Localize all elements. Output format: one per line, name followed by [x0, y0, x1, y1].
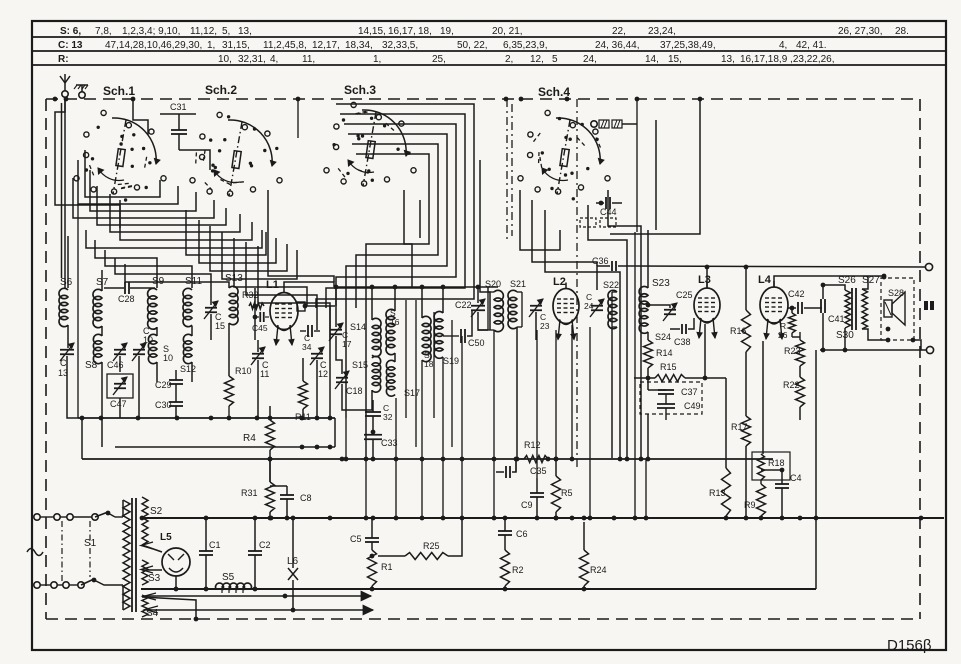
- wire: [520, 190, 560, 250]
- svg-text:C30: C30: [155, 400, 172, 410]
- mechanical link wire: [576, 99, 578, 468]
- wire: [210, 314, 212, 340]
- wire: [122, 500, 124, 517]
- junction: [364, 457, 369, 462]
- svg-text:L4: L4: [758, 274, 772, 286]
- svg-text:C: C: [60, 358, 67, 368]
- svg-text:S11: S11: [185, 276, 202, 287]
- junction: [744, 516, 749, 521]
- svg-text:15,: 15,: [668, 54, 682, 65]
- svg-text:16,17,: 16,17,: [388, 26, 416, 37]
- svg-text:11,: 11,: [302, 54, 315, 65]
- wire: [228, 323, 230, 376]
- terminal post: [925, 263, 932, 270]
- svg-text:C: 13: C: 13: [58, 40, 83, 51]
- wire: [883, 276, 885, 277]
- wire: [268, 512, 273, 520]
- wire: [73, 178, 214, 218]
- transformer S30 label: [836, 330, 854, 341]
- svg-text:S27: S27: [862, 275, 880, 286]
- coil S10: [148, 334, 173, 363]
- wire: [257, 360, 259, 418]
- coil S23: [639, 278, 670, 333]
- wire: [535, 312, 537, 340]
- jack socket: [591, 120, 637, 128]
- svg-text:R14: R14: [656, 348, 673, 358]
- svg-text:L3: L3: [698, 274, 711, 286]
- wire: [110, 194, 240, 232]
- wire: [326, 114, 465, 308]
- svg-text:R32: R32: [242, 290, 259, 300]
- svg-text:32,31,: 32,31,: [238, 54, 266, 65]
- wire: [451, 320, 453, 447]
- svg-text:S22: S22: [603, 280, 619, 290]
- svg-text:12,17,: 12,17,: [312, 40, 340, 51]
- wire: [101, 326, 103, 336]
- chassis dashed top wire: [46, 98, 920, 100]
- wire: [234, 238, 307, 306]
- junction: [633, 516, 638, 521]
- wire: [395, 398, 397, 518]
- junction: [588, 516, 593, 521]
- junction on chassis wire: [504, 97, 509, 102]
- wire: [536, 330, 538, 478]
- wire: [478, 312, 488, 330]
- svg-text:S: 6,: S: 6,: [60, 26, 81, 37]
- capacitor C28: [104, 282, 155, 304]
- mains switch blade: [81, 578, 96, 585]
- switch Sch.1 label: [103, 84, 135, 98]
- svg-text:C9: C9: [521, 500, 533, 510]
- AVC filter box: [640, 382, 702, 414]
- wire: [268, 457, 273, 482]
- junction: [554, 457, 559, 462]
- wire: [186, 210, 266, 255]
- transformer S26: [838, 275, 856, 328]
- transformer S3: [142, 560, 161, 585]
- capacitor C32: [365, 400, 393, 432]
- table row R text: [58, 54, 835, 65]
- coil S21: [508, 279, 526, 329]
- table line 1: [32, 36, 946, 38]
- svg-text:S9: S9: [152, 276, 165, 287]
- junction: [724, 516, 729, 521]
- winding terminal: [141, 542, 158, 613]
- junction: [919, 516, 924, 521]
- wire: [515, 327, 520, 461]
- wire: [108, 513, 123, 517]
- junction on chassis wire: [64, 97, 69, 102]
- svg-text:10: 10: [163, 353, 173, 363]
- junction: [99, 416, 104, 421]
- capacitor C37: [658, 387, 698, 397]
- capacitor C41: [821, 299, 845, 324]
- svg-text:R10: R10: [235, 366, 252, 376]
- arrow wire: [148, 605, 373, 614]
- plug symbol: [924, 301, 934, 310]
- wire: [85, 150, 160, 197]
- triode L3: [694, 274, 720, 323]
- resistor R10: [225, 366, 252, 406]
- capacitor C38: [670, 316, 694, 347]
- wire: [821, 313, 826, 352]
- wire: [840, 285, 845, 290]
- capacitor C42: [788, 289, 822, 314]
- junction: [582, 516, 587, 521]
- svg-text:15: 15: [215, 321, 225, 331]
- wire: [405, 300, 407, 418]
- resistor R4: [243, 420, 275, 450]
- resistor R31: [241, 482, 275, 512]
- bus wire B+: [82, 458, 773, 460]
- svg-text:23,24,: 23,24,: [648, 26, 676, 37]
- wire: [421, 360, 423, 518]
- chassis dashed right wire: [919, 99, 921, 619]
- wire: [222, 232, 297, 279]
- svg-text:16,17,18,9 ,23,22,26,: 16,17,18,9 ,23,22,26,: [740, 54, 835, 65]
- fuse L6: [287, 556, 299, 610]
- coil S8: [85, 334, 102, 371]
- wire: [95, 240, 157, 288]
- wire: [744, 265, 749, 310]
- coil S11: [183, 276, 203, 327]
- svg-text:32,33,5,: 32,33,5,: [382, 40, 418, 51]
- speaker box: [881, 278, 914, 340]
- bus wire HT: [141, 517, 944, 519]
- wire: [342, 384, 372, 410]
- svg-text:34: 34: [302, 342, 312, 352]
- svg-text:24: 24: [584, 301, 594, 311]
- wire: [336, 336, 342, 374]
- svg-text:C46: C46: [107, 360, 124, 370]
- svg-text:47,14,28,10,46,29,30,: 47,14,28,10,46,29,30,: [105, 40, 202, 51]
- svg-text:37,25,38,49,: 37,25,38,49,: [660, 40, 716, 51]
- wire: [101, 418, 103, 447]
- variable capacitor C46: [107, 343, 127, 370]
- junction: [300, 416, 305, 421]
- junction: [344, 457, 349, 462]
- wire: [493, 330, 495, 518]
- resistor R26: [778, 313, 796, 340]
- wire: [67, 325, 69, 348]
- junction: [612, 516, 617, 521]
- junction: [371, 516, 376, 521]
- wire: [634, 232, 636, 518]
- wire: [608, 190, 641, 459]
- wire: [760, 480, 762, 518]
- mains terminal: [34, 582, 84, 588]
- svg-text:S5: S5: [222, 572, 235, 583]
- svg-text:1,2,3,4; 9,10,: 1,2,3,4; 9,10,: [122, 26, 180, 37]
- wire hairpin: [478, 329, 488, 331]
- svg-text:12,: 12,: [530, 54, 544, 65]
- coil S15: [352, 356, 381, 392]
- wire: [646, 303, 670, 308]
- junction: [204, 516, 209, 521]
- coil S14: [350, 318, 381, 356]
- capacitor C5: [350, 518, 379, 550]
- svg-text:R31: R31: [241, 488, 258, 498]
- bus wire: [78, 417, 335, 419]
- resistor R13: [709, 468, 731, 516]
- svg-text:Sch.3: Sch.3: [344, 83, 376, 97]
- wire: [101, 362, 103, 418]
- junction on chassis wire: [635, 97, 640, 102]
- variable capacitor C18: [335, 371, 363, 396]
- wire: [799, 366, 801, 420]
- svg-text:R24: R24: [590, 565, 607, 575]
- svg-text:14,: 14,: [645, 54, 659, 65]
- wire: [862, 329, 888, 340]
- svg-text:S6: S6: [60, 277, 73, 288]
- resistor R1: [368, 550, 393, 586]
- variable capacitor C15: [204, 301, 225, 331]
- junction on chassis wire: [131, 97, 136, 102]
- svg-text:10,: 10,: [218, 54, 232, 65]
- wire: [442, 357, 444, 518]
- wire: [246, 242, 317, 330]
- svg-text:R23: R23: [784, 346, 801, 356]
- capacitor C50: [443, 310, 485, 348]
- junction: [328, 416, 333, 421]
- wire: [329, 306, 331, 418]
- wire: [610, 99, 700, 234]
- junction: [255, 416, 260, 421]
- junction on chassis wire: [698, 97, 703, 102]
- wire: [257, 340, 259, 352]
- wire: [268, 406, 273, 420]
- wire: [571, 325, 573, 459]
- wire: [97, 186, 226, 225]
- cathode arrows L3: [697, 318, 717, 338]
- capacitor C29: [155, 370, 183, 402]
- junction: [759, 516, 764, 521]
- mains terminal: [34, 514, 98, 520]
- capacitor C49: [657, 401, 701, 411]
- mains switch blade: [95, 511, 110, 517]
- wire: [40, 584, 78, 586]
- capacitor C8: [280, 486, 312, 518]
- capacitor C47 box: [107, 374, 133, 398]
- junction on chassis wire: [519, 97, 524, 102]
- svg-text:C37: C37: [681, 387, 698, 397]
- variable capacitor C25: [663, 290, 693, 321]
- svg-text:2,: 2,: [505, 54, 513, 65]
- wire: [646, 414, 651, 461]
- junction: [780, 516, 785, 521]
- wire: [142, 545, 162, 552]
- wire: [270, 485, 287, 487]
- wire: [268, 190, 334, 282]
- junction: [394, 457, 399, 462]
- junction: [420, 516, 425, 521]
- wire: [705, 265, 710, 288]
- variable capacitor C10: [132, 326, 153, 361]
- terminal post: [820, 346, 934, 353]
- wire S2 tap: [140, 516, 145, 521]
- bus wire heater: [141, 588, 816, 590]
- cathode arrows L1: [274, 325, 294, 345]
- wire: [821, 283, 840, 299]
- wire: [345, 418, 347, 459]
- svg-text:S15: S15: [352, 360, 368, 370]
- wire: [582, 522, 587, 591]
- svg-text:S1: S1: [84, 538, 97, 549]
- svg-text:18,: 18,: [418, 26, 432, 37]
- capacitor C31: [170, 102, 187, 150]
- junction: [503, 516, 508, 521]
- svg-text:13,: 13,: [238, 26, 252, 37]
- svg-text:S21: S21: [510, 279, 526, 289]
- wire: [404, 190, 412, 288]
- capacitor C45: [252, 312, 269, 333]
- wire anode: [284, 282, 334, 287]
- wire: [119, 356, 121, 372]
- svg-text:25,: 25,: [432, 54, 446, 65]
- wire: [745, 446, 747, 518]
- wire: [611, 327, 613, 458]
- svg-text:20, 21,: 20, 21,: [492, 26, 523, 37]
- coil S7: [93, 277, 109, 328]
- junction: [441, 457, 446, 462]
- wire: [122, 585, 124, 610]
- junction: [554, 516, 559, 521]
- antenna wire: [62, 97, 66, 288]
- transformer S4: [142, 595, 159, 619]
- wire: [77, 204, 79, 418]
- capacitor C36: [592, 256, 616, 271]
- svg-text:C35: C35: [530, 466, 547, 476]
- coil S19: [434, 311, 459, 366]
- grid bus wire: [334, 286, 498, 288]
- svg-text:24,: 24,: [583, 54, 597, 65]
- wire: [352, 144, 438, 308]
- coil S13: [225, 273, 243, 325]
- junction: [644, 516, 649, 521]
- wire: [258, 246, 330, 340]
- svg-text:C50: C50: [468, 338, 485, 348]
- wire: [545, 210, 620, 458]
- svg-text:C8: C8: [300, 493, 312, 503]
- switch Sch.1 wafer: [74, 110, 166, 201]
- mechanical link wire: [89, 521, 91, 577]
- svg-text:C4: C4: [790, 473, 802, 483]
- svg-text:11,12,: 11,12,: [190, 26, 217, 37]
- junction: [340, 457, 345, 462]
- wire: [648, 378, 666, 420]
- wire: [516, 458, 524, 460]
- svg-text:S23: S23: [652, 278, 670, 289]
- svg-text:S24: S24: [655, 332, 671, 342]
- wire: [101, 270, 103, 291]
- wire: [115, 258, 211, 305]
- resistor R18 box: [752, 452, 790, 480]
- svg-text:S12: S12: [180, 364, 196, 374]
- junction: [394, 516, 399, 521]
- svg-text:28.: 28.: [895, 26, 909, 37]
- junction: [639, 457, 644, 462]
- svg-text:R25: R25: [423, 541, 440, 551]
- junction: [364, 516, 369, 521]
- triode L1: [266, 279, 298, 331]
- switch Sch.2 label: [205, 83, 237, 97]
- svg-text:R15: R15: [660, 362, 677, 372]
- wire: [156, 362, 158, 382]
- wire: [704, 324, 706, 378]
- wire: [725, 516, 727, 518]
- wire: [90, 170, 196, 211]
- bus wire: [334, 418, 336, 447]
- wire: [647, 332, 649, 340]
- svg-text:C25: C25: [676, 290, 693, 300]
- junction: [814, 516, 819, 521]
- wire: [725, 378, 727, 468]
- junction: [315, 445, 320, 450]
- svg-text:R2: R2: [512, 565, 524, 575]
- svg-text:C6: C6: [516, 529, 528, 539]
- wire: [67, 236, 69, 288]
- arrow wire: [143, 591, 371, 600]
- junction: [328, 445, 333, 450]
- wire grid tab: [297, 302, 307, 311]
- wire: [191, 362, 193, 382]
- chassis dashed bottom wire: [46, 618, 920, 620]
- junction: [460, 457, 465, 462]
- svg-text:32: 32: [383, 412, 393, 422]
- wire: [133, 99, 148, 135]
- capacitor C2: [248, 518, 271, 591]
- svg-text:17: 17: [342, 339, 352, 349]
- wire: [191, 326, 193, 336]
- svg-text:19,: 19,: [440, 26, 454, 37]
- wire: [179, 150, 210, 170]
- resistor R18: [758, 454, 785, 480]
- coil S6: [59, 277, 73, 327]
- svg-text:C18: C18: [346, 386, 363, 396]
- capacitor C44: [596, 197, 622, 217]
- wire: [346, 134, 447, 418]
- junction: [570, 516, 575, 521]
- junction: [328, 516, 333, 521]
- junction: [285, 516, 290, 521]
- svg-text:R1: R1: [381, 562, 393, 572]
- svg-text:S14: S14: [350, 322, 366, 332]
- wire: [356, 154, 429, 459]
- wire: [105, 250, 192, 288]
- svg-text:42, 41.: 42, 41.: [796, 40, 827, 51]
- wire: [589, 327, 591, 518]
- jack switch: [580, 218, 616, 227]
- coil S9: [148, 276, 165, 329]
- switch Sch.3 wafer: [324, 102, 416, 186]
- wire: [503, 586, 508, 591]
- table row C text: [58, 40, 827, 51]
- wire: [55, 99, 120, 228]
- svg-text:24, 36,44,: 24, 36,44,: [595, 40, 639, 51]
- junction: [209, 416, 214, 421]
- transformer S1 primary: [84, 500, 130, 610]
- wire: [210, 226, 287, 271]
- table line 2: [32, 50, 946, 52]
- junction on chassis wire: [565, 97, 570, 102]
- wire: [790, 306, 795, 313]
- svg-text:5: 5: [552, 54, 558, 65]
- wire: [125, 264, 229, 288]
- svg-text:C28: C28: [118, 294, 135, 304]
- resistor R9: [744, 484, 766, 516]
- capacitor C9: [521, 478, 544, 518]
- resistor R24: [580, 550, 607, 586]
